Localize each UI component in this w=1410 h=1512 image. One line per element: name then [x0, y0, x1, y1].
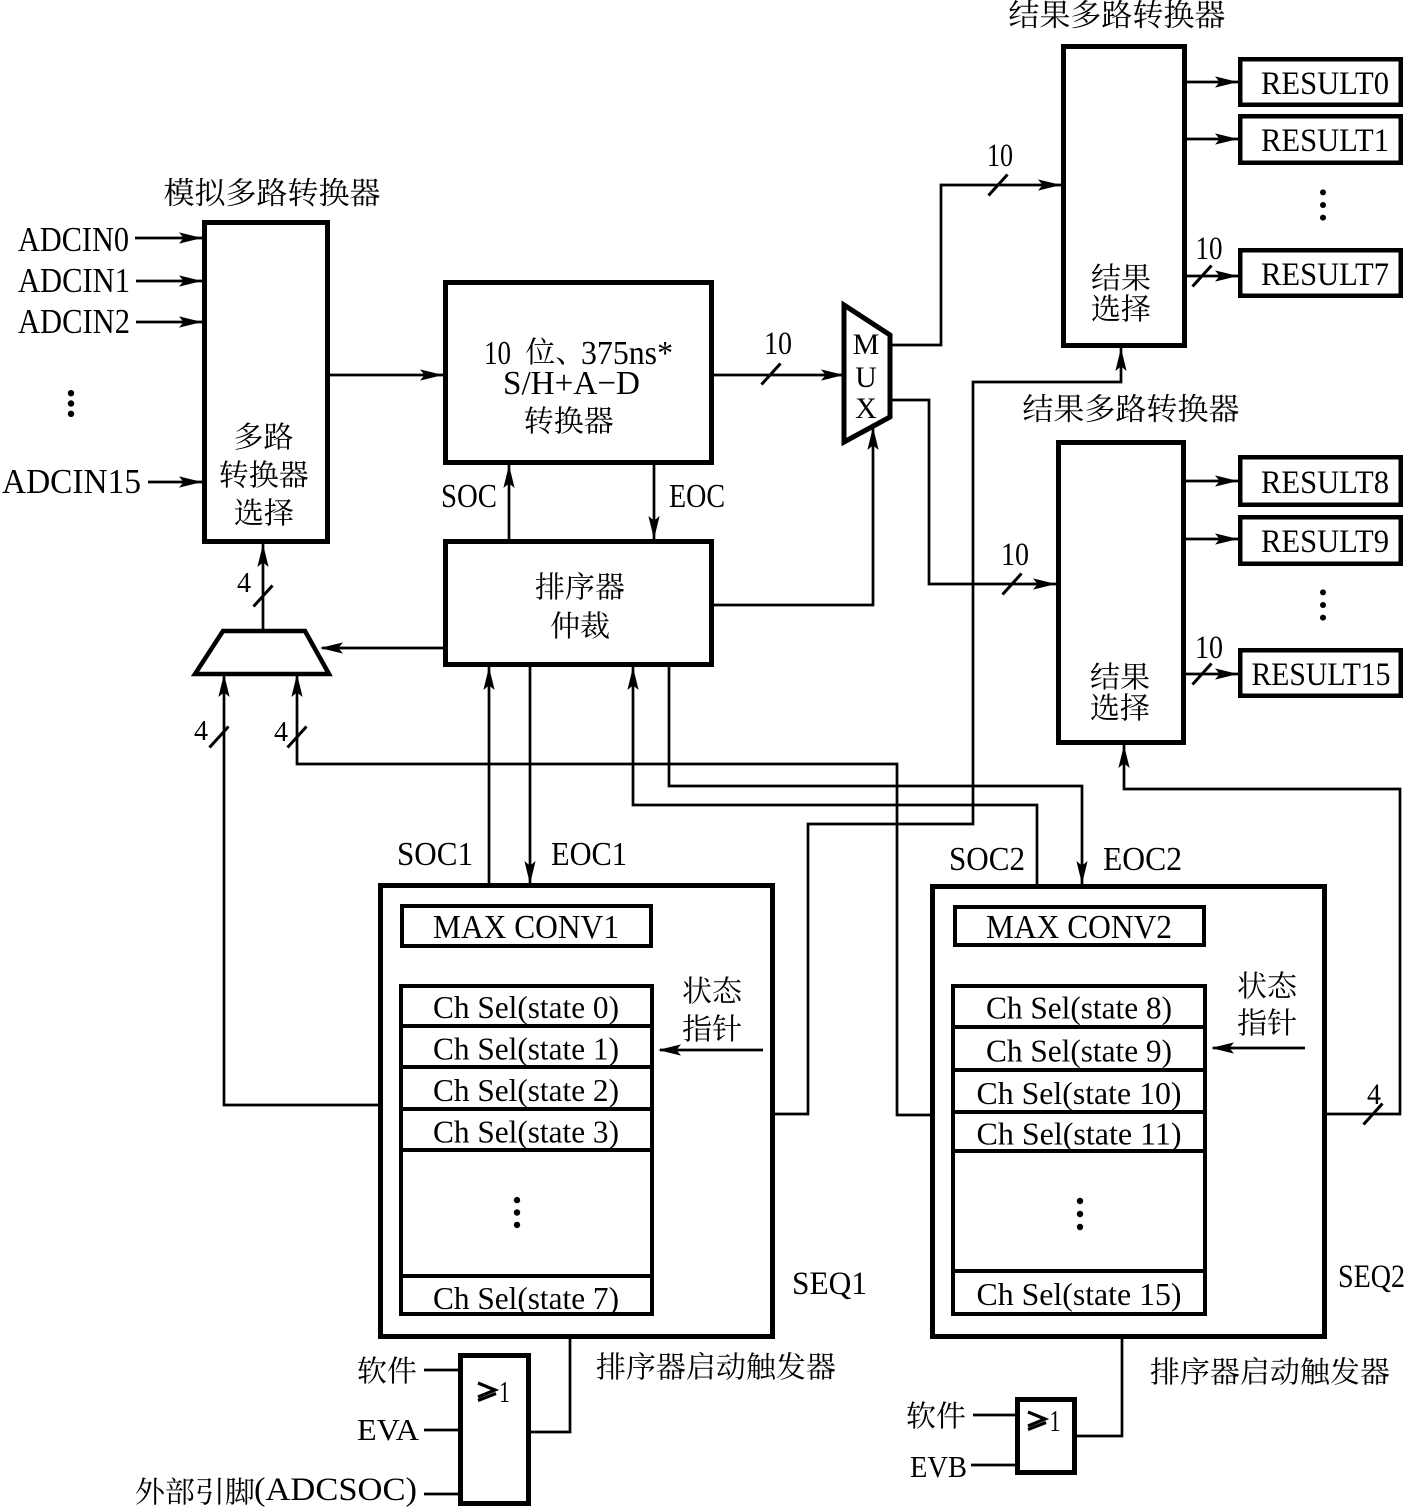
symbol >=1 in OR gate 1	[478, 1383, 496, 1401]
wire ADCIN0 input	[135, 237, 202, 240]
wire OR2 output to SEQ2	[1077, 1339, 1122, 1436]
wire result select1 to RESULT7 (10-bit)	[1187, 275, 1238, 278]
wire result select2 to RESULT9	[1186, 538, 1238, 541]
wire result select1 to RESULT1	[1187, 138, 1238, 141]
ellipsis ChSel1 rows	[514, 1197, 520, 1228]
svg-text:MAX CONV2: MAX CONV2	[986, 909, 1172, 946]
register MAX CONV2	[955, 907, 1204, 945]
svg-text:Ch Sel(state 7): Ch Sel(state 7)	[433, 1280, 619, 1316]
text 多路 in analog mux block	[235, 422, 292, 450]
svg-text:S/H+A−D: S/H+A−D	[503, 365, 640, 402]
svg-text:EVB: EVB	[910, 1449, 967, 1484]
svg-text:ADCIN2: ADCIN2	[18, 302, 130, 341]
svg-text:Ch Sel(state 10): Ch Sel(state 10)	[977, 1075, 1182, 1111]
svg-text:MAX CONV1: MAX CONV1	[433, 909, 619, 946]
svg-text:SOC1: SOC1	[397, 836, 473, 873]
symbol >=1 in OR gate 2	[1028, 1412, 1046, 1430]
label state pointer 1 指针	[683, 1014, 741, 1042]
ellipsis ChSel2 rows	[1077, 1198, 1083, 1230]
register RESULT1	[1240, 116, 1401, 163]
label result multiplexer 2 结果多路转换器	[1023, 394, 1238, 423]
wire SOC1 SEQ1 to arbiter	[488, 667, 491, 884]
register RESULT7	[1240, 250, 1401, 296]
svg-text:Ch Sel(state 8): Ch Sel(state 8)	[986, 990, 1172, 1026]
wire SEQ1 to result select 1 (control)	[775, 348, 1121, 1114]
wire software to OR1	[424, 1369, 459, 1372]
svg-text:EOC2: EOC2	[1103, 841, 1182, 878]
svg-text:EVA: EVA	[357, 1412, 420, 1447]
wire external pin to OR1	[424, 1493, 459, 1496]
register RESULT0	[1240, 59, 1401, 105]
svg-text:RESULT15: RESULT15	[1252, 657, 1391, 693]
wire SEQ2 ch-sel to demux (4-bit)	[297, 674, 930, 1115]
text 选择 in result select 2	[1091, 693, 1149, 721]
svg-text:SOC: SOC	[441, 478, 497, 515]
text 排序器 in arbiter	[536, 572, 624, 600]
wire arbiter to MUX select	[714, 427, 873, 605]
svg-text:4: 4	[194, 715, 208, 747]
row separator ChSel2 2	[951, 1068, 1207, 1072]
OR gate 2 (>=1)	[1018, 1400, 1075, 1473]
svg-text:4: 4	[1367, 1078, 1381, 1111]
svg-text:ADCIN15: ADCIN15	[2, 462, 141, 501]
wire result select2 to RESULT8	[1186, 480, 1238, 483]
svg-text:U: U	[855, 361, 877, 394]
svg-text:SOC2: SOC2	[949, 841, 1025, 878]
svg-text:Ch Sel(state 15): Ch Sel(state 15)	[977, 1276, 1182, 1312]
wire ADCIN2 input	[136, 321, 202, 324]
row separator ChSel1 5	[399, 1274, 654, 1278]
block sequencer arbiter 排序器仲裁	[446, 542, 712, 665]
svg-text:10: 10	[1195, 630, 1223, 666]
wire EOC converter to arbiter	[653, 465, 656, 539]
svg-text:RESULT0: RESULT0	[1261, 66, 1389, 102]
row separator ChSel2 3	[951, 1110, 1207, 1114]
block result select 1 结果选择	[1064, 47, 1185, 346]
text 选择 in result select 1	[1092, 294, 1150, 322]
wire ADCIN15 input	[148, 481, 202, 484]
block SEQ2 sequencer	[933, 887, 1325, 1337]
svg-text:RESULT9: RESULT9	[1261, 524, 1389, 560]
svg-text:EOC: EOC	[669, 478, 725, 515]
svg-text:1: 1	[499, 1374, 510, 1409]
text 选择 in analog mux block	[235, 498, 293, 526]
block S/H+A-D converter	[446, 283, 712, 463]
svg-text:4: 4	[237, 567, 251, 599]
register RESULT9	[1240, 517, 1401, 564]
svg-text:Ch Sel(state 0): Ch Sel(state 0)	[433, 989, 619, 1025]
svg-text:M: M	[853, 328, 880, 361]
svg-text:EOC1: EOC1	[551, 836, 627, 873]
svg-text:RESULT7: RESULT7	[1261, 257, 1389, 293]
svg-text:10: 10	[764, 326, 792, 362]
channel-select demux (trapezoid)	[195, 631, 329, 674]
label state pointer 2 指针	[1238, 1008, 1296, 1036]
register RESULT8	[1240, 457, 1401, 505]
svg-text:X: X	[855, 392, 877, 425]
table Ch Sel states SEQ1	[401, 986, 652, 1314]
row separator ChSel1 4	[399, 1148, 654, 1152]
ellipsis ADCIN inputs	[68, 390, 74, 417]
text 转换器 (converter line3)	[525, 406, 613, 434]
label 外部引脚 external pin	[136, 1477, 254, 1505]
text 仲裁 in arbiter	[551, 611, 609, 639]
svg-text:10: 10	[1001, 537, 1029, 573]
svg-text:RESULT8: RESULT8	[1261, 465, 1389, 501]
wire EVB to OR2	[971, 1464, 1015, 1467]
svg-text:1: 1	[1050, 1403, 1061, 1438]
ellipsis RESULT9..15	[1320, 589, 1326, 620]
text 结果 in result select 1	[1092, 263, 1150, 290]
table Ch Sel states SEQ2	[953, 986, 1205, 1314]
label state pointer 2 状态	[1238, 971, 1296, 998]
svg-text:Ch Sel(state 9): Ch Sel(state 9)	[986, 1033, 1172, 1069]
wire converter to MUX (10-bit bus)	[714, 374, 844, 377]
text 转换器 in analog mux block	[220, 460, 308, 488]
block result select 2 结果选择	[1059, 443, 1184, 743]
svg-text:ADCIN0: ADCIN0	[18, 220, 129, 259]
wire SOC2 SEQ2 to arbiter	[633, 667, 1037, 884]
svg-text:10: 10	[987, 138, 1013, 174]
wire arbiter to demux	[322, 647, 443, 650]
block SEQ1 sequencer	[381, 886, 773, 1337]
row separator ChSel2 1	[951, 1025, 1207, 1029]
wire state pointer 1 arrow	[660, 1049, 763, 1052]
text 位、 (in converter line1)	[526, 337, 564, 364]
row separator ChSel1 3	[399, 1107, 654, 1111]
OR gate 1 (>=1)	[461, 1356, 529, 1504]
row separator ChSel1 1	[399, 1024, 654, 1028]
wire MUX to result mux 1 (10-bit)	[890, 185, 1061, 345]
wire SEQ2 to result select 2 (control, 4-bit)	[1124, 745, 1400, 1114]
svg-text:Ch Sel(state 3): Ch Sel(state 3)	[433, 1114, 619, 1150]
svg-text:SEQ2: SEQ2	[1338, 1259, 1405, 1295]
svg-text:Ch Sel(state 2): Ch Sel(state 2)	[433, 1072, 619, 1108]
wire SOC arbiter to converter	[508, 465, 511, 539]
wire analog mux to converter	[330, 374, 443, 377]
wire software to OR2	[973, 1414, 1015, 1417]
block analog MUX select 多路转换器选择	[205, 223, 328, 542]
row separator ChSel2 5	[951, 1269, 1207, 1273]
text 结果 in result select 2	[1091, 662, 1149, 689]
row separator ChSel1 2	[399, 1065, 654, 1069]
label sequencer start trigger 2 排序器启动触发器	[1151, 1357, 1389, 1385]
row separator ChSel2 4	[951, 1149, 1207, 1153]
wire MUX to result mux 2 (10-bit)	[890, 400, 1056, 584]
wire state pointer 2 arrow	[1213, 1047, 1305, 1050]
label 软件 OR1	[358, 1356, 416, 1384]
svg-text:4: 4	[274, 716, 288, 748]
register RESULT15	[1240, 650, 1401, 696]
svg-text:ADCIN1: ADCIN1	[18, 261, 130, 300]
ellipsis RESULT1..7	[1320, 189, 1326, 220]
wire EVA to OR1	[424, 1429, 459, 1432]
label sequencer start trigger 1 排序器启动触发器	[597, 1352, 835, 1380]
wire SEQ1 ch-sel to demux (4-bit)	[224, 674, 378, 1105]
svg-text:(ADCSOC): (ADCSOC)	[254, 1472, 417, 1507]
svg-text:10: 10	[1196, 231, 1223, 267]
label 软件 OR2	[907, 1401, 965, 1429]
label result multiplexer 1 结果多路转换器	[1009, 0, 1224, 28]
register MAX CONV1	[402, 906, 651, 946]
wire result select2 to RESULT15 (10-bit)	[1186, 673, 1238, 676]
wire EOC1 arbiter to SEQ1	[529, 667, 532, 884]
svg-text:RESULT1: RESULT1	[1261, 123, 1389, 159]
wire result select1 to RESULT0	[1187, 81, 1238, 84]
svg-text:Ch Sel(state 11): Ch Sel(state 11)	[977, 1116, 1182, 1152]
wire demux to analog mux (4-bit)	[262, 544, 265, 630]
MUX block (trapezoid)	[844, 305, 890, 442]
wire EOC2 arbiter to SEQ2	[669, 667, 1082, 884]
label analog multiplexer 模拟多路转换器	[164, 178, 379, 207]
wire OR1 output to SEQ1	[531, 1339, 570, 1432]
svg-text:SEQ1: SEQ1	[792, 1266, 867, 1302]
wire ADCIN1 input	[136, 280, 202, 283]
label state pointer 1 状态	[683, 976, 741, 1003]
svg-text:Ch Sel(state 1): Ch Sel(state 1)	[433, 1031, 619, 1067]
